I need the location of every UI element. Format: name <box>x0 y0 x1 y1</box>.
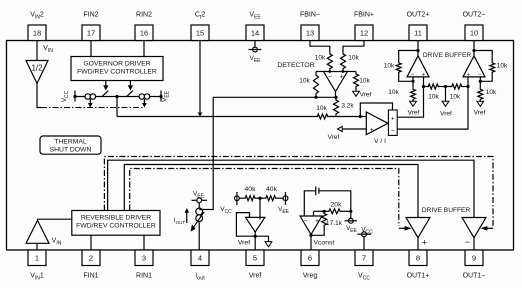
label 10k <box>497 63 508 70</box>
wire summing chain <box>422 85 470 88</box>
wire detector plus branch <box>347 71 357 73</box>
wire pin15 Ct2 down <box>198 40 203 117</box>
pin 1 bottom <box>28 250 46 281</box>
resistor 3.2k <box>334 97 339 116</box>
svg-text:10k: 10k <box>497 63 508 70</box>
svg-text:10k: 10k <box>316 105 327 112</box>
svg-text:V / I: V / I <box>374 138 386 145</box>
svg-text:6: 6 <box>308 254 312 263</box>
svg-text:5: 5 <box>253 254 257 263</box>
wire Iout source to pin4 <box>198 222 200 250</box>
svg-text:FIN1: FIN1 <box>83 273 98 280</box>
wire feedback solid line to OUT1- amp <box>108 160 474 217</box>
resistor 10k (FBIN-) <box>327 51 332 72</box>
resistor 17.1k <box>322 211 327 227</box>
op-amp Vreg <box>300 216 322 235</box>
wire VIN1 amp to reversible box <box>38 219 72 220</box>
block REVERSIBLE DRIVER FWD/REV CONTROLLER <box>72 211 160 236</box>
svg-text:17: 17 <box>87 29 95 38</box>
svg-text:10k: 10k <box>486 89 497 96</box>
terminal tick VEE rail <box>159 91 162 102</box>
current mirror right <box>139 94 150 108</box>
wire detector output rail <box>213 92 337 99</box>
wire feedback to minus <box>399 74 415 83</box>
svg-text:10k: 10k <box>388 89 399 96</box>
svg-text:3: 3 <box>142 254 146 263</box>
wire capacitor to 20k right node <box>319 191 351 212</box>
label 10k <box>486 89 497 96</box>
svg-text:10k: 10k <box>428 93 439 100</box>
pin 11 top <box>407 12 430 41</box>
block V/I output stage <box>388 110 397 135</box>
wire V/I minus output <box>397 77 468 129</box>
label 20k <box>331 202 343 209</box>
op-amp 1/2 attenuator <box>26 61 48 84</box>
current source Iout <box>191 208 204 232</box>
control arrow into OUT1- amp <box>481 226 494 231</box>
svg-text:Vref: Vref <box>238 240 250 247</box>
svg-text:Vconst: Vconst <box>314 240 335 247</box>
label DETECTOR <box>277 62 314 69</box>
svg-text:+: + <box>370 127 374 134</box>
wire pin1 to amp <box>36 243 38 250</box>
capacitor C <box>316 186 319 195</box>
svg-text:Vref: Vref <box>474 110 486 117</box>
wire minus to capacitor <box>304 191 315 216</box>
pin 16 top <box>135 12 153 41</box>
wire pin10 to amp <box>472 40 475 56</box>
svg-text:−: − <box>304 219 308 225</box>
wire 20k to VEE node <box>342 210 353 213</box>
label minus OUT1- <box>465 237 470 247</box>
svg-text:GOVERNOR DRIVER: GOVERNOR DRIVER <box>83 61 150 68</box>
wire OUT2+ minus stub <box>412 77 414 87</box>
resistor 10k (FBIN+) <box>341 51 346 72</box>
svg-text:+: + <box>315 219 319 225</box>
wire Vref feedback loop <box>236 213 255 237</box>
label 17.1k <box>326 220 343 227</box>
op-amp OUT2- buffer <box>463 56 485 79</box>
current mirror left <box>85 94 96 108</box>
svg-text:1/2: 1/2 <box>31 64 43 73</box>
label Iout with arrow <box>174 208 189 225</box>
pin 6 bottom <box>301 250 319 280</box>
terminal VEE Iout <box>192 191 208 209</box>
label 10k <box>348 55 359 62</box>
svg-text:Vref: Vref <box>408 110 420 117</box>
label 10k <box>450 93 461 100</box>
svg-text:18: 18 <box>33 29 41 38</box>
label 10k <box>315 55 326 62</box>
wire Vref output to pin5 <box>254 232 257 250</box>
label 10k <box>384 63 395 70</box>
governor control arrow right <box>128 81 133 91</box>
pin 15 top <box>191 12 209 41</box>
resistor 10k feedback OUT2- <box>490 61 495 74</box>
pin 8 bottom <box>407 250 430 280</box>
wire V/I feedback over top <box>360 103 392 117</box>
svg-text:+: + <box>422 237 427 247</box>
wire pin11 to amp <box>416 40 419 56</box>
label 10k <box>388 89 399 96</box>
svg-text:FWD/REV CONTROLLER: FWD/REV CONTROLLER <box>77 69 157 76</box>
svg-text:1: 1 <box>35 254 39 263</box>
pin 17 top <box>82 12 100 41</box>
wire governor supply rail <box>75 96 161 98</box>
resistor 10k to Vref OUT2- <box>478 87 483 101</box>
svg-text:−: − <box>391 128 395 135</box>
terminal tick VCC rail <box>73 91 76 102</box>
svg-text:11: 11 <box>414 29 422 38</box>
label Vconst <box>314 240 335 247</box>
label 10k <box>299 78 310 85</box>
op-amp V/I <box>366 112 388 135</box>
pin 13 top <box>300 12 320 41</box>
label VCC <box>220 206 232 215</box>
wire OUT2- feedback <box>474 51 492 62</box>
pin 12 top <box>354 12 374 41</box>
wire error signal line <box>117 116 366 118</box>
svg-text:10k: 10k <box>299 78 310 85</box>
wire 17.1k return to output <box>311 228 324 236</box>
svg-text:DETECTOR: DETECTOR <box>277 62 314 69</box>
resistor 10k to Vref <box>354 72 359 90</box>
wire Vreg output to pin6 <box>309 234 312 250</box>
svg-text:14: 14 <box>251 29 259 38</box>
svg-text:+: + <box>339 74 343 81</box>
label 40k <box>266 186 278 193</box>
pin 4 bottom <box>191 250 209 281</box>
label plus OUT1+ <box>422 237 427 247</box>
svg-text:10k: 10k <box>450 93 461 100</box>
svg-text:FWD/REV CONTROLLER: FWD/REV CONTROLLER <box>76 223 156 230</box>
label Vref node <box>238 240 250 247</box>
svg-text:+: + <box>391 116 395 123</box>
resistor 10k chain left <box>427 84 440 89</box>
svg-text:DRIVE BUFFER: DRIVE BUFFER <box>422 207 471 214</box>
resistor 10k feedback <box>314 72 319 98</box>
terminal VEE 20k <box>345 211 358 233</box>
node switch center junction <box>115 95 118 117</box>
svg-text:Vref: Vref <box>249 273 262 280</box>
label 10k <box>428 93 439 100</box>
pin 3 bottom <box>135 250 153 280</box>
pin 5 bottom <box>246 250 264 280</box>
svg-text:17.1k: 17.1k <box>326 220 343 227</box>
label V / I <box>374 138 386 145</box>
label 3.2k <box>341 103 354 110</box>
svg-text:Vref: Vref <box>328 134 340 141</box>
svg-text:15: 15 <box>196 29 204 38</box>
wire reversible box to pin2 <box>90 235 92 250</box>
svg-text:REVERSIBLE DRIVER: REVERSIBLE DRIVER <box>81 215 151 222</box>
terminal Vref <box>474 101 486 116</box>
terminal VCC pin7 <box>357 227 373 251</box>
pin 18 top <box>28 12 46 41</box>
wire feedback solid line to OUT1+ amp <box>124 165 418 218</box>
label DRIVE BUFFER bottom <box>422 207 471 214</box>
svg-text:Vreg: Vreg <box>303 273 318 280</box>
wire feedback to minus right <box>479 74 493 83</box>
resistor 10k feedback OUT2+ <box>396 61 401 74</box>
resistor 20k <box>328 209 342 214</box>
svg-text:+: + <box>422 72 426 78</box>
svg-text:12: 12 <box>360 29 368 38</box>
svg-text:7: 7 <box>362 254 366 263</box>
pin 9 bottom <box>463 250 486 280</box>
terminal Vref arrow <box>338 126 367 131</box>
wire feedback dash line OUT1+ sense <box>130 169 399 226</box>
wire control net to Iout source <box>199 97 213 209</box>
svg-text:−: − <box>465 237 470 247</box>
wire pin12 to 10k <box>343 40 364 51</box>
label DRIVE BUFFER top <box>423 52 472 59</box>
label VCC rotated <box>61 90 70 102</box>
svg-text:2: 2 <box>89 254 93 263</box>
wire feedback dash line OUT1- sense <box>104 157 493 226</box>
svg-text:−: − <box>328 73 332 80</box>
svg-text:DRIVE BUFFER: DRIVE BUFFER <box>423 52 472 59</box>
svg-text:RIN2: RIN2 <box>136 12 152 19</box>
op-amp VIN1 input <box>26 220 49 243</box>
op-amp OUT2+ buffer <box>407 56 429 79</box>
label VEE <box>278 206 290 215</box>
terminal VCC divider <box>235 192 245 205</box>
pin 10 top <box>463 12 486 41</box>
pin 14 top <box>246 12 264 41</box>
op-amp detector <box>324 70 348 91</box>
label 40k <box>245 186 257 193</box>
terminal Vref <box>408 101 420 116</box>
label 10k <box>316 105 327 112</box>
wire pin16 to governor box <box>143 40 145 57</box>
svg-text:THERMAL: THERMAL <box>54 139 87 146</box>
resistor 10k chain right <box>451 84 464 89</box>
wire OUT1- amp to pin9 <box>473 238 475 250</box>
node 20k left junction <box>314 210 328 216</box>
svg-text:40k: 40k <box>266 186 278 193</box>
resistor 10k series <box>316 114 329 119</box>
IC package outline <box>7 41 514 251</box>
switch blade right <box>126 91 132 97</box>
svg-text:13: 13 <box>306 29 314 38</box>
governor control arrow left <box>103 81 108 91</box>
svg-text:OUT1−: OUT1− <box>463 273 486 280</box>
svg-text:10k: 10k <box>348 55 359 62</box>
terminal Vref detector <box>353 89 372 99</box>
terminal Vref chain tap <box>440 87 452 118</box>
block GOVERNOR DRIVER FWD/REV CONTROLLER <box>71 57 163 81</box>
op-amp Vref buffer <box>246 217 265 232</box>
svg-text:16: 16 <box>140 29 148 38</box>
op-amp OUT1+ buffer <box>406 218 430 238</box>
wire 1/2 amp output <box>37 84 41 108</box>
svg-text:SHUT DOWN: SHUT DOWN <box>50 147 92 154</box>
block THERMAL SHUT DOWN <box>40 136 101 154</box>
wire pin13 to 10k <box>310 40 330 51</box>
wire OUT1+ amp to pin8 <box>417 238 419 250</box>
wire dash-dot bias line to current mirrors <box>41 107 144 109</box>
wire OUT2+ feedback <box>399 51 418 62</box>
switch blade left <box>102 91 109 97</box>
svg-text:IOUT: IOUT <box>174 218 185 225</box>
svg-text:10k: 10k <box>384 63 395 70</box>
svg-text:FBIN+: FBIN+ <box>354 12 374 19</box>
wire pin18 to 1/2 amp <box>36 40 38 61</box>
control arrow into OUT1+ amp <box>399 226 412 231</box>
wire OUT2- minus stub <box>479 77 481 87</box>
label Vref <box>328 134 340 141</box>
svg-text:3.2k: 3.2k <box>341 103 354 110</box>
node divider mid <box>256 197 264 200</box>
wire reversible box to pin3 <box>143 235 145 250</box>
terminal VEE divider <box>277 192 288 205</box>
svg-text:Vref: Vref <box>440 111 452 118</box>
label 10k <box>359 78 370 85</box>
svg-text:20k: 20k <box>331 202 343 209</box>
svg-text:4: 4 <box>198 254 202 263</box>
svg-text:RIN1: RIN1 <box>136 273 152 280</box>
pin 7 bottom <box>355 250 373 281</box>
node V/I inverting input <box>359 115 362 118</box>
wire detector minus branch <box>316 71 325 73</box>
svg-text:Vref: Vref <box>360 92 372 99</box>
wire divider to amp input <box>259 198 261 219</box>
label VEE rotated <box>162 90 171 102</box>
svg-text:10k: 10k <box>315 55 326 62</box>
wire V/I plus output <box>397 77 423 117</box>
resistor 40k right <box>265 196 277 201</box>
svg-text:9: 9 <box>472 254 476 263</box>
svg-text:OUT1+: OUT1+ <box>407 273 430 280</box>
label VIN <box>52 238 62 247</box>
svg-text:10k: 10k <box>359 78 370 85</box>
svg-text:OUT2−: OUT2− <box>463 12 486 19</box>
terminal VEE pin14 <box>249 40 262 64</box>
svg-text:FIN2: FIN2 <box>83 12 98 19</box>
resistor 10k to Vref OUT2+ <box>411 87 416 101</box>
svg-text:FBIN−: FBIN− <box>300 12 320 19</box>
pin 2 bottom <box>82 250 100 280</box>
svg-text:OUT2+: OUT2+ <box>407 12 430 19</box>
svg-text:10: 10 <box>470 29 478 38</box>
wire pin17 to governor box <box>90 40 92 57</box>
terminal Vref down arrow <box>255 236 272 247</box>
svg-text:+: + <box>467 72 471 78</box>
svg-text:8: 8 <box>416 254 420 263</box>
op-amp OUT1- buffer <box>462 218 486 238</box>
svg-text:40k: 40k <box>245 186 257 193</box>
node VIN label <box>43 45 53 54</box>
resistor 40k left <box>244 196 256 201</box>
